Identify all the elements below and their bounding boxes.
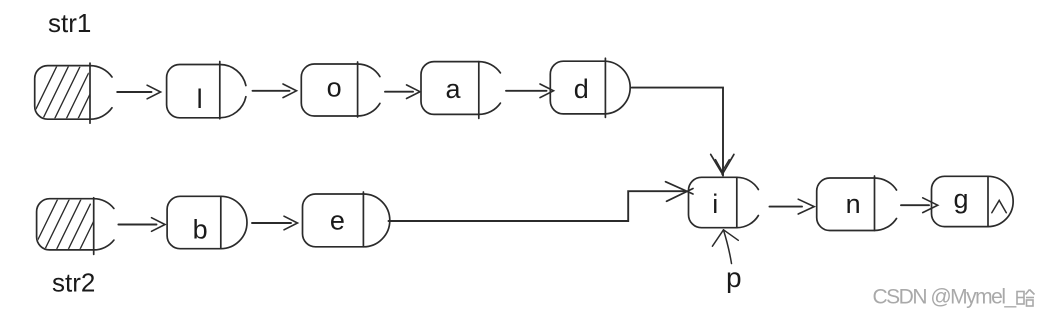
node o — [301, 62, 380, 117]
wire A4 a-to-d — [506, 84, 554, 98]
svg-text:i: i — [712, 189, 718, 219]
svg-text:d: d — [574, 74, 589, 104]
node g — [932, 176, 1014, 226]
node H1 — [31, 63, 116, 123]
pointer p arrow into node i bottom — [712, 230, 738, 264]
wire d-to-i elbow (right then down) — [632, 88, 723, 176]
wire A8 n-to-g — [901, 198, 938, 213]
node l — [167, 62, 246, 119]
arrowhead into node i top — [711, 154, 734, 174]
svg-text:b: b — [193, 214, 208, 244]
node a — [421, 62, 500, 119]
svg-text:g: g — [953, 184, 968, 214]
svg-text:n: n — [846, 189, 861, 219]
svg-text:CSDN @Mymel_: CSDN @Mymel_ — [873, 286, 1017, 309]
svg-text:l: l — [197, 84, 203, 114]
wire A1 H1-to-l — [117, 85, 160, 99]
node H2 — [33, 198, 117, 255]
svg-text:str1: str1 — [48, 8, 91, 38]
wire e-to-i elbow (long line right, up, right) — [389, 191, 687, 221]
wire A5 H2-to-b — [118, 218, 165, 232]
wire A6 b-to-e — [252, 216, 298, 230]
svg-text:p: p — [726, 262, 742, 293]
node d — [550, 58, 630, 117]
arrowhead into node i left — [666, 182, 694, 202]
wire A3 o-to-a — [385, 85, 420, 99]
node n — [817, 176, 897, 231]
node e — [303, 192, 390, 247]
wire A7 i-to-n — [770, 199, 815, 214]
svg-text:str2: str2 — [52, 267, 95, 297]
null marker caret in node g pointer field — [992, 200, 1007, 212]
svg-text:a: a — [445, 74, 461, 104]
node i — [689, 177, 759, 227]
svg-text:o: o — [327, 73, 342, 103]
svg-text:e: e — [330, 206, 345, 236]
node b — [167, 196, 247, 248]
wire A2 l-to-o — [253, 84, 297, 98]
watermark CJK glyph (han) drawn as strokes — [1017, 290, 1035, 307]
